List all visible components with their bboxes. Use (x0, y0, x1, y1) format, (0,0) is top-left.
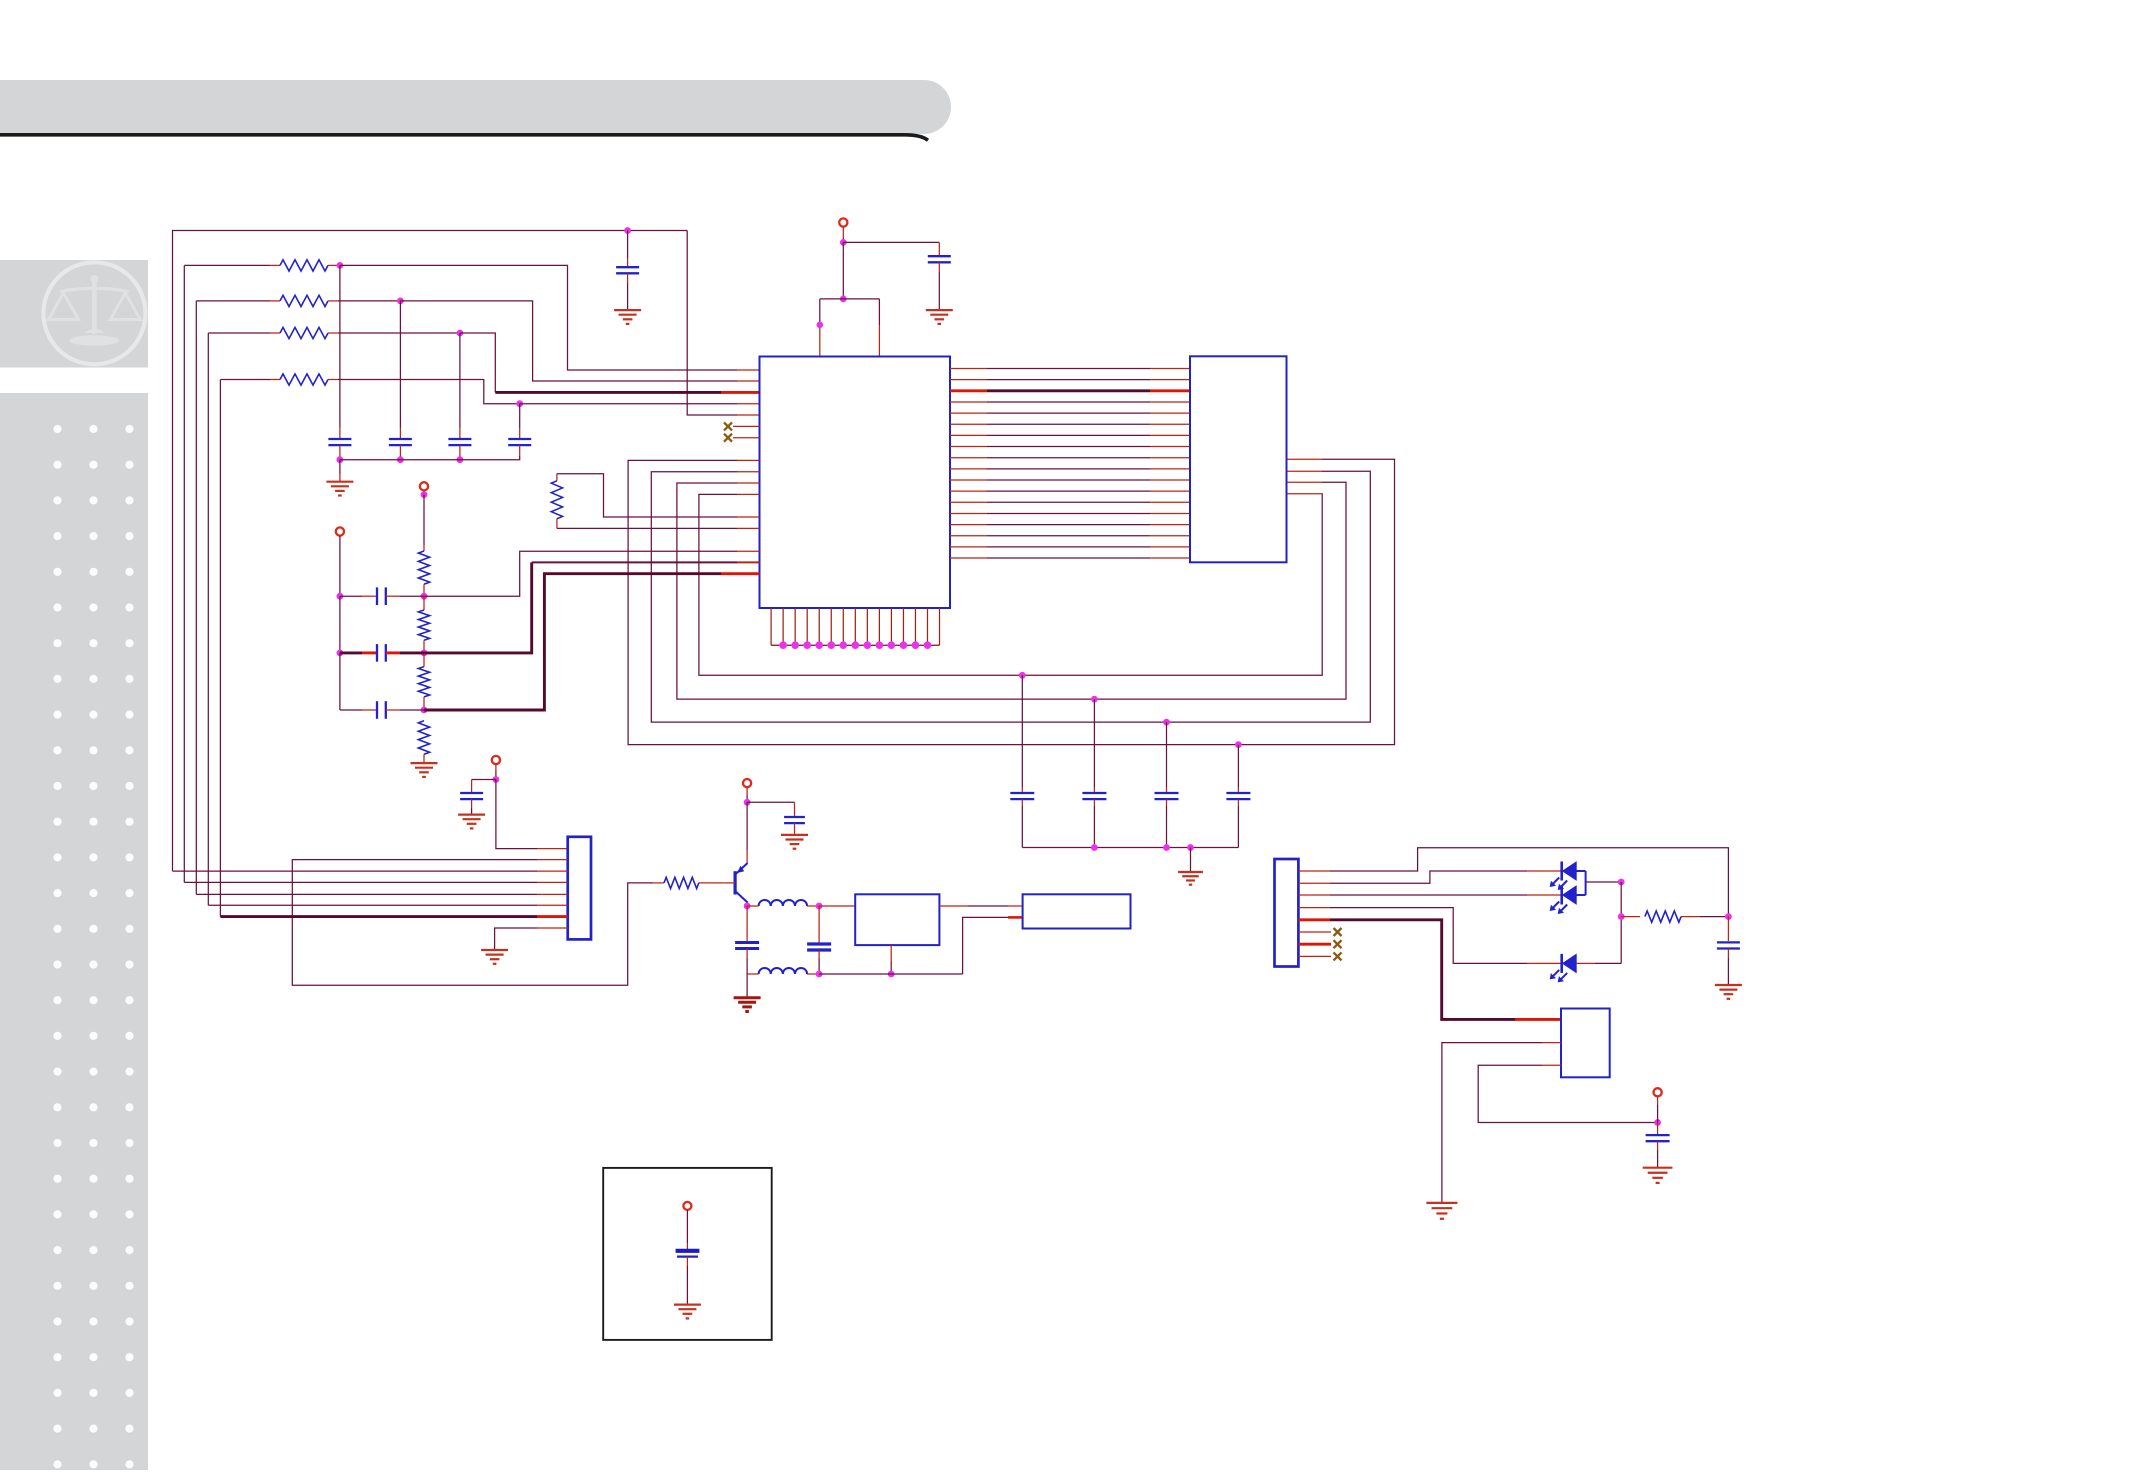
node filter gnd a (888, 971, 895, 978)
wire VDD4 lead (495, 764, 497, 779)
capacitor C2 (389, 439, 412, 445)
wire VDD1 down (842, 242, 844, 299)
wire join to node (1586, 881, 1622, 883)
wire J2 pin1 to R7 node (1298, 848, 1728, 917)
wire Q1 collector (747, 903, 749, 907)
capacitor C11 series (377, 587, 386, 605)
wire rail j1-j2 (339, 596, 341, 653)
wire ladder j2-j3 (423, 653, 425, 667)
ground C17 (1715, 985, 1742, 999)
wire loop cap bus (1022, 847, 1238, 849)
wire VDD5 lead (746, 787, 748, 802)
power terminal VDD6 (1654, 1088, 1662, 1096)
ground C6 (926, 310, 953, 324)
wire ladder j3 lead (423, 697, 425, 710)
wire to U1 pin4 (520, 403, 760, 405)
no-connect X J2.8 (1334, 952, 1342, 960)
transistor Q1 (735, 863, 748, 903)
wire VDD5 to C15 (747, 802, 794, 817)
wire J2 pin8 nc (1298, 955, 1331, 957)
node ladder j3 (421, 707, 428, 714)
wire C2 riser (399, 301, 401, 439)
wire net J1.3 riser/top rail (173, 231, 688, 872)
no-connect X U1.6 (724, 422, 732, 430)
capacitor C8 loop bypass (1155, 722, 1179, 847)
wire C19 to ground (686, 1257, 688, 1305)
wire loop net 1 (U1 to U2) (628, 459, 1394, 744)
resistor R8d (418, 721, 429, 755)
wire top rail down to U1 pin5 (687, 231, 759, 416)
node bus gnd tap (1187, 844, 1194, 851)
node loop 2 cap tap (1163, 719, 1170, 726)
wire U1 bottom pins bus (771, 608, 939, 645)
node R2 output (397, 298, 404, 305)
wire R1 to junction (328, 264, 340, 266)
wire C3 riser (459, 333, 461, 439)
node C4 tap (516, 400, 523, 407)
wire net J1.6 riser (208, 333, 280, 905)
capacitor C19 polarized (676, 1251, 700, 1257)
node ladder j2 (421, 650, 428, 657)
ic U2 (1190, 356, 1287, 562)
resistor R6 base (664, 877, 699, 888)
power terminal VDD1 (839, 218, 847, 226)
sidebar logo scales icon (43, 262, 145, 364)
capacitor C16 (807, 906, 831, 974)
wire VDD3 lead (423, 491, 425, 495)
wire net J1.5 riser (196, 301, 280, 895)
ground top-rail cap (614, 310, 641, 324)
node U1 bottom pin junctions (779, 641, 931, 649)
wire led node down (1620, 882, 1622, 963)
node ladder top (421, 491, 428, 498)
capacitor C3 (448, 439, 471, 445)
resistor R5 (551, 481, 562, 519)
wire capA left (340, 595, 377, 597)
ground U5 pin2 (1426, 1203, 1457, 1219)
wire J2 pin2 to LED1 (1298, 871, 1561, 883)
ground loop bus (1178, 848, 1203, 885)
resistor R8a (418, 551, 429, 584)
inductor L2 (759, 968, 808, 974)
resistor R4 (280, 374, 328, 385)
wire VDD1 to C6 (843, 242, 939, 256)
wire U1 pin6 stub (733, 425, 760, 427)
power terminal VDD5 (743, 779, 751, 787)
capacitor C10 loop bypass (1010, 675, 1034, 847)
wire VDD7 lead (686, 1210, 688, 1251)
node led join (1618, 879, 1625, 886)
wire J2 pin5 to U4b thick (1298, 920, 1561, 1020)
wire C14 to ground (471, 799, 473, 815)
wire LED1-LED2 join (1576, 871, 1585, 895)
module U4 (1023, 894, 1131, 928)
connector J1 (568, 837, 591, 940)
node R7 right (1725, 913, 1732, 920)
ground C18 (1643, 1168, 1673, 1183)
ground ladder (411, 763, 438, 777)
resistor R2 (280, 295, 328, 306)
node loop 3 cap tap (1091, 696, 1098, 703)
wire J1 pin6 (208, 904, 567, 906)
wire capC right (386, 709, 424, 711)
ground C15 (781, 835, 808, 849)
capacitor C1 (328, 439, 351, 445)
wire ladder j1 (423, 584, 425, 596)
capacitor C17 (1717, 917, 1740, 985)
wire VDD1 lead (842, 227, 844, 243)
node ladder j1 (421, 593, 428, 600)
wire J1 pin5 (196, 893, 567, 895)
wire ladder j2 lead (423, 640, 425, 653)
node loop 1 cap tap (1235, 741, 1242, 748)
wire Q1 gnd stub (746, 974, 748, 998)
wire loop net 3 (U1 to U2) (677, 482, 1346, 699)
resistor R7 (1645, 911, 1681, 922)
node filter top (816, 903, 823, 910)
node rail j1 (337, 593, 344, 600)
wire LED3 to node (1576, 962, 1621, 964)
node rail j2 (337, 650, 344, 657)
led D1 (1550, 862, 1577, 891)
wire loop net 4 (U1 to U2) (699, 494, 1322, 676)
wire J1 pin7 thick (220, 915, 567, 918)
node bus b1 (1091, 844, 1098, 851)
wire R4 out to U1 pin4 (328, 380, 520, 404)
node bus b2 (1163, 844, 1170, 851)
inductor L1 (759, 900, 808, 906)
wire U5 pin3 to VDD (1478, 1065, 1657, 1122)
ground C-bus (326, 460, 353, 496)
wire C1 bottom (339, 445, 341, 460)
led D3 (1550, 954, 1577, 983)
wire ladder j3 to U1 pin16 thick (424, 574, 760, 710)
node loop 4 cap tap (1019, 672, 1026, 679)
node pin-a (817, 322, 824, 329)
node filter bottom (816, 971, 823, 978)
node Q1 collector (744, 903, 751, 910)
ground C19 (674, 1305, 701, 1319)
wire R5 bottom to U1 pin13 (557, 519, 760, 529)
power terminal VDD7 (683, 1202, 691, 1210)
capacitor C6 (928, 256, 951, 262)
ground C14 (458, 815, 485, 829)
ic U1 (760, 357, 951, 609)
power terminal VDD2 (336, 527, 344, 535)
capacitor C9 loop bypass (1082, 699, 1106, 847)
capacitor C18 (1646, 1123, 1670, 1168)
wire loop net 2 (U1 to U2) (651, 471, 1370, 722)
wire U1 top pin a (819, 299, 821, 357)
wire L1 to node (807, 905, 819, 907)
node R7 tap (1618, 913, 1625, 920)
node VDD1 junction (840, 239, 847, 246)
wire J2 pin6 nc (1298, 931, 1331, 933)
wire U5 pin2 to ground (1442, 1043, 1561, 1203)
wire U1 top pin b (878, 299, 880, 357)
power terminal VDD3 (420, 482, 428, 490)
capacitor C7 loop bypass (1226, 745, 1250, 848)
wire net J1.7 riser (220, 380, 280, 917)
node R1 output (337, 262, 344, 269)
capacitor C14 (460, 793, 483, 799)
wire C3 bottom (459, 445, 461, 460)
wire net J1.4 riser (184, 265, 280, 882)
capacitor C4 (508, 439, 531, 445)
wire capB right thick (386, 651, 424, 654)
wire ladder j2 to U1 pin15 thick (424, 562, 760, 653)
sidebar logo panel (0, 260, 148, 368)
node C2 bus (397, 456, 404, 463)
wire R3 to junction (328, 332, 460, 334)
wire R1 out to U1 pin1 (340, 265, 760, 370)
wire VDD6 lead (1657, 1097, 1659, 1123)
wire VCC rail (339, 536, 341, 596)
node VDD6 junction (1654, 1119, 1661, 1126)
wire R7 right (1681, 916, 1728, 918)
wire ladder j1-j2 (423, 596, 425, 610)
wire rail j2-j3 (339, 653, 341, 710)
wire to L2 (747, 973, 759, 975)
wire C4 riser (519, 404, 521, 439)
wire ladder to ground (423, 754, 425, 763)
wire U1 pin7 stub (733, 437, 760, 439)
wire J1 pin2 loop to R6 (292, 860, 664, 986)
capacitor C13 series (377, 701, 386, 719)
header bar (0, 80, 951, 140)
node VDD4 junction (493, 776, 500, 783)
wire C1 riser (339, 265, 341, 439)
wire R2 out to U1 pin2 (400, 301, 759, 381)
wire Q1 base stub (723, 882, 735, 884)
wire R6 to Q1 (699, 882, 723, 884)
wire capB left thick (340, 651, 377, 654)
node top-rail junction (624, 227, 631, 234)
wire to L1 (747, 905, 759, 907)
wire J1 pin8 to ground (495, 928, 568, 950)
node C3 bus (457, 456, 464, 463)
wire R2 to junction (328, 300, 400, 302)
node R3 output (457, 330, 464, 337)
wire U3 out (939, 905, 1022, 907)
power terminal VDD4 (492, 756, 500, 764)
wire VDD4 to J1 pin1 (496, 780, 568, 849)
resistor R8c (418, 667, 429, 697)
resistor R1 (280, 260, 328, 271)
wire J1 pin3 (173, 870, 568, 872)
node C1 bus (337, 456, 344, 463)
wire VDD5 to Q1 emitter (746, 802, 748, 863)
no-connect X J2.7 (1334, 940, 1342, 948)
wire J2 pin7 nc thick (1298, 943, 1331, 946)
wire J2 pin3 to LED2 (1298, 894, 1561, 896)
wire C6 to ground (938, 262, 940, 310)
module U3 (855, 894, 939, 945)
wire bus U1-U2 18 lines (950, 369, 1190, 559)
wire VDD split bar (820, 298, 880, 300)
wire ladder j1 to U1 pin14 (424, 551, 760, 596)
wire J2 pin4 to LED3 (1298, 908, 1561, 964)
led D2 (1550, 886, 1577, 915)
wire U3 gnd pin (890, 945, 892, 974)
wire C15 to ground (794, 823, 796, 835)
wire capA right (386, 595, 424, 597)
wire filter gnd bus (819, 973, 963, 975)
wire node to U3 (819, 905, 855, 907)
ground J1 pin8 (481, 950, 508, 964)
wire J1 pin4 (184, 881, 567, 883)
wire C4 bottom to bus (340, 445, 520, 460)
wire R7 left stub (1621, 916, 1640, 918)
connector J2 (1275, 859, 1299, 967)
ground Q1 cluster (734, 998, 761, 1012)
capacitor C12 series (377, 644, 386, 662)
capacitor C15 (784, 817, 805, 823)
node VDD5 junction (744, 799, 751, 806)
sidebar dotted panel (0, 393, 148, 1470)
wire bus up to U4 in2 (963, 917, 1023, 974)
wire capC left (340, 709, 377, 711)
ic U5 (1561, 1009, 1610, 1078)
node VDD split (840, 296, 847, 303)
resistor R3 (280, 327, 328, 338)
wire VDD4 to C14 (472, 780, 496, 794)
wire C2 bottom (399, 445, 401, 460)
no-connect X J2.6 (1334, 928, 1342, 936)
capacitor C5 decoupling top rail (616, 231, 639, 311)
wire L2 to node (807, 973, 819, 975)
no-connect X U1.7 (724, 434, 732, 442)
wire U1 pin12 to R5 top (557, 474, 760, 517)
resistor R8b (418, 610, 429, 640)
capacitor C20 collector shunt (735, 906, 759, 974)
wire ladder top (423, 495, 425, 551)
detail box (603, 1168, 772, 1340)
wire R3 out to U1 pin3 thick (460, 333, 760, 392)
